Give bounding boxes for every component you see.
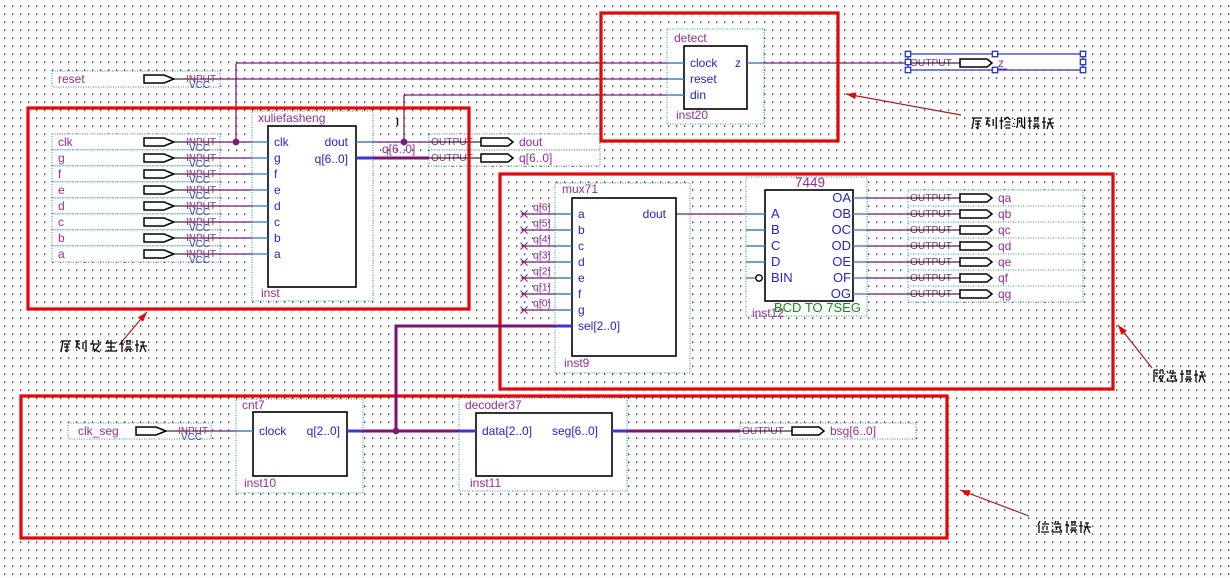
output pin qb [908, 206, 1083, 222]
svg-text:e: e [578, 271, 585, 285]
svg-text:detect: detect [674, 31, 707, 45]
wire clk vertical branch [235, 64, 237, 143]
svg-text:din: din [690, 88, 706, 102]
svg-text:q[5]: q[5] [533, 218, 551, 230]
symbol boundary xuliefasheng [252, 111, 373, 301]
dangling mark q[0] [521, 307, 528, 314]
svg-text:C: C [771, 238, 780, 253]
input pin g boundary [52, 150, 220, 166]
svg-text:inst11: inst11 [470, 476, 501, 490]
wire stub q[4] to mux71 [521, 245, 555, 247]
input pin reset [58, 72, 218, 91]
symbol boundary 7449 [746, 177, 867, 316]
svg-text:reset: reset [690, 72, 717, 86]
junction clk net [233, 139, 240, 146]
svg-text:OA: OA [832, 190, 851, 205]
input pin clk [58, 135, 218, 154]
bus sel horizontal to mux71 [395, 325, 556, 328]
tick mark [397, 118, 398, 126]
svg-text:b: b [578, 223, 585, 237]
wire e input to xuliefasheng [218, 189, 252, 191]
wire stub q[3] to mux71 [521, 261, 555, 263]
input pin e [58, 183, 218, 202]
wire b input to xuliefasheng [218, 237, 252, 239]
annotation arrow to detector box [846, 93, 961, 116]
svg-text:VCC: VCC [181, 432, 202, 443]
svg-text:OF: OF [833, 270, 851, 285]
input pin d [58, 199, 218, 218]
output pin z [905, 51, 1085, 72]
svg-text:q[3]: q[3] [533, 250, 551, 262]
svg-text:BCD TO 7SEG: BCD TO 7SEG [774, 300, 861, 315]
output pin qc [908, 222, 1083, 238]
input pin c boundary [52, 214, 220, 230]
wire stub q[0] to mux71 [521, 309, 555, 311]
svg-text:clk: clk [58, 135, 74, 149]
wire 7449 OE to output qe [867, 261, 908, 263]
svg-text:seg[6..0]: seg[6..0] [552, 424, 598, 438]
svg-text:cnt7: cnt7 [242, 398, 265, 412]
wire g input to xuliefasheng [218, 157, 252, 159]
wire dout branch vertical [403, 95, 405, 142]
input pin a [58, 247, 218, 266]
svg-text:decoder37: decoder37 [465, 398, 522, 412]
block detect [667, 31, 764, 122]
wire stub q[6] to mux71 [521, 213, 555, 215]
svg-text:a: a [58, 247, 65, 261]
svg-text:VCC: VCC [189, 255, 210, 266]
wire stub q[2] to mux71 [521, 277, 555, 279]
wire stub q[1] to mux71 [521, 293, 555, 295]
dangling mark q[3] [521, 259, 528, 266]
output pin q[6..0] [429, 150, 600, 166]
block xuliefasheng [252, 111, 373, 300]
svg-text:VCC: VCC [189, 80, 210, 91]
symbol boundary decoder37 [459, 398, 627, 491]
svg-text:q[2..0]: q[2..0] [307, 424, 340, 438]
wire 7449 OG to output qg [867, 293, 908, 295]
svg-text:OE: OE [832, 254, 851, 269]
output pin qf [908, 270, 1083, 286]
annotation box sequence detector module [601, 13, 838, 141]
BIN bubble [746, 277, 755, 279]
svg-text:OD: OD [832, 238, 852, 253]
svg-text:inst9: inst9 [564, 356, 590, 370]
svg-text:q[0]: q[0] [533, 298, 551, 310]
svg-text:d: d [58, 199, 65, 213]
label xu-lie-fa-sheng-mo-kuai (sequence generator module) [61, 340, 147, 352]
dangling mark q[6] [521, 211, 528, 218]
junction dout net [401, 139, 408, 146]
svg-text:BIN: BIN [771, 270, 793, 285]
svg-text:q[6..0]: q[6..0] [315, 152, 348, 166]
wire clk to detect clock [236, 62, 667, 64]
svg-text:B: B [771, 222, 780, 237]
svg-text:e: e [58, 183, 65, 197]
svg-text:z: z [735, 56, 741, 70]
svg-text:qa: qa [998, 191, 1012, 205]
svg-text:sel[2..0]: sel[2..0] [578, 319, 620, 333]
wire dout net [373, 141, 429, 143]
svg-text:d: d [578, 255, 585, 269]
wire clk input to xuliefasheng [218, 141, 252, 143]
input pin g [58, 151, 218, 170]
svg-text:g: g [58, 151, 65, 165]
block decoder37 [459, 398, 627, 490]
svg-text:qd: qd [998, 239, 1011, 253]
label duan-xuan-mo-kuai (segment select module) [1154, 370, 1206, 382]
svg-text:c: c [274, 215, 280, 229]
input pin d boundary [52, 198, 220, 214]
svg-text:q[6..0]: q[6..0] [519, 151, 552, 165]
bus cnt7 q to decoder37 data [363, 430, 459, 433]
annotation arrow to generator box [119, 312, 147, 345]
svg-text:clock: clock [259, 424, 287, 438]
svg-text:q[4]: q[4] [533, 234, 551, 246]
input pin clk boundary [52, 134, 220, 150]
wire d input to xuliefasheng [218, 205, 252, 207]
bus decoder37 seg to output [627, 430, 740, 433]
wire 7449 OC to output qc [867, 229, 908, 231]
input pin f boundary [52, 166, 220, 182]
svg-text:qe: qe [998, 255, 1012, 269]
annotation box bit-select module [21, 396, 947, 538]
svg-text:inst12: inst12 [752, 306, 784, 320]
wire 7449 OD to output qd [867, 245, 908, 247]
svg-text:qb: qb [998, 207, 1012, 221]
svg-text:d: d [274, 199, 281, 213]
svg-text:qf: qf [998, 271, 1009, 285]
input pin clk_seg [78, 424, 209, 443]
symbol boundary detect [667, 29, 764, 124]
output pin qe [908, 254, 1083, 270]
svg-text:7449: 7449 [795, 175, 825, 190]
svg-text:inst: inst [261, 286, 280, 300]
svg-text:a: a [578, 207, 585, 221]
symbol boundary mux71 [555, 183, 690, 373]
dangling mark q[4] [521, 243, 528, 250]
wire stub q[5] to mux71 [521, 229, 555, 231]
svg-text:dout: dout [643, 207, 667, 221]
output pin dout [429, 134, 600, 150]
svg-text:q[1]: q[1] [533, 282, 551, 294]
svg-text:dout: dout [519, 135, 543, 149]
svg-text:inst20: inst20 [676, 108, 708, 122]
wire c input to xuliefasheng [218, 221, 252, 223]
annotation box segment-select module [500, 174, 1113, 389]
svg-text:g: g [578, 303, 585, 317]
svg-text:e: e [274, 183, 281, 197]
svg-text:clk_seg: clk_seg [78, 424, 119, 438]
svg-text:c: c [578, 239, 584, 253]
svg-text:q[2]: q[2] [533, 266, 551, 278]
block cnt7 [236, 398, 363, 490]
svg-text:dout: dout [325, 135, 349, 149]
svg-text:clock: clock [690, 56, 718, 70]
input pin reset boundary [52, 71, 220, 87]
svg-text:reset: reset [58, 72, 85, 86]
input pin c [58, 215, 218, 234]
svg-text:bsg[6..0]: bsg[6..0] [830, 424, 876, 438]
svg-text:a: a [274, 247, 281, 261]
wire 7449 OF to output qf [867, 277, 908, 279]
block 7449 [746, 175, 867, 320]
svg-text:b: b [58, 231, 65, 245]
svg-text:A: A [771, 206, 780, 221]
svg-text:clk: clk [274, 135, 290, 149]
input pin b [58, 231, 218, 250]
input pin f [58, 167, 218, 186]
input pin a boundary [52, 246, 220, 262]
svg-text:xuliefasheng: xuliefasheng [258, 111, 325, 125]
output pin qd [908, 238, 1083, 254]
symbol boundary cnt7 [236, 399, 363, 493]
dangling mark q[2] [521, 275, 528, 282]
wire mux71 dout to 7449 A [676, 213, 746, 215]
svg-text:D: D [771, 254, 780, 269]
dangling mark q[5] [521, 227, 528, 234]
svg-text:OG: OG [831, 286, 851, 301]
svg-text:g: g [274, 151, 281, 165]
input pin b boundary [52, 230, 220, 246]
svg-text:data[2..0]: data[2..0] [482, 424, 532, 438]
svg-text:b: b [274, 231, 281, 245]
svg-text:c: c [58, 215, 64, 229]
annotation arrow to bit-select box [960, 490, 1029, 516]
output pin qa [908, 190, 1083, 206]
wire 7449 OA to output qa [867, 197, 908, 199]
label wei-xuan-mo-kuai (bit select module) [1038, 521, 1091, 533]
block mux71 [555, 182, 676, 370]
svg-text:OB: OB [832, 206, 851, 221]
label xu-lie-jian-ce-mo-kuai (sequence detector module) [972, 117, 1054, 129]
svg-text:q[6]: q[6] [533, 202, 551, 214]
wire reset to detect [218, 78, 667, 80]
svg-text:z: z [998, 56, 1004, 70]
svg-text:mux71: mux71 [562, 182, 598, 196]
svg-text:q[6..0]: q[6..0] [382, 142, 415, 156]
wire dout branch to detect din [404, 94, 667, 96]
annotation arrow to segment-select box [1118, 325, 1152, 368]
svg-text:qc: qc [998, 223, 1011, 237]
output pin qg [908, 286, 1083, 302]
bus q[6..0] net [373, 157, 429, 160]
input pin clk_seg boundary [68, 423, 211, 439]
svg-text:qg: qg [998, 287, 1011, 301]
wire 7449 OB to output qb [867, 213, 908, 215]
output pin bsg[6..0] [740, 423, 916, 439]
annotation box sequence generator module [28, 108, 469, 309]
dangling mark q[1] [521, 291, 528, 298]
junction bus at cnt7 output [393, 428, 400, 435]
bus sel vertical [395, 325, 398, 433]
svg-text:inst10: inst10 [244, 476, 276, 490]
svg-text:OC: OC [832, 222, 852, 237]
wire f input to xuliefasheng [218, 173, 252, 175]
wire clk_seg to cnt7 [209, 430, 236, 432]
input pin e boundary [52, 182, 220, 198]
wire a input to xuliefasheng [218, 253, 252, 255]
wire detect z to output pin [764, 62, 908, 64]
